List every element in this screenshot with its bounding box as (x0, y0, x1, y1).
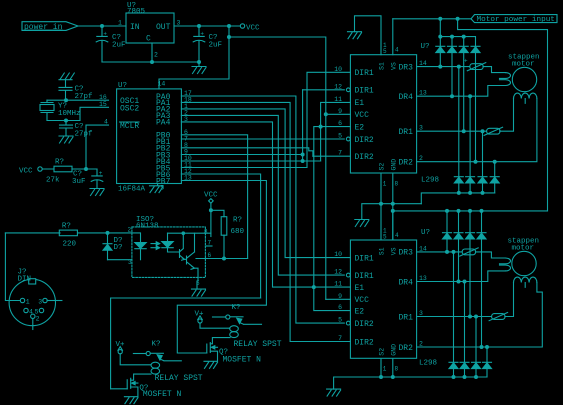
svg-text:L298: L298 (421, 177, 439, 185)
diode D6 (471, 46, 480, 161)
svg-text:MOSFET N: MOSFET N (223, 356, 262, 365)
VCC terminal left (19, 167, 42, 176)
wire U1 out to VCC (174, 25, 240, 27)
svg-text:6: 6 (338, 304, 342, 311)
node out junctions (197, 24, 201, 28)
svg-text:1: 1 (383, 181, 387, 188)
wire PA2 to U3 pin10 (181, 109, 350, 258)
diode D1 (103, 233, 123, 260)
svg-text:1: 1 (118, 20, 122, 27)
diode D12 (454, 211, 463, 282)
diode D13 (466, 211, 475, 317)
svg-text:U?: U? (118, 82, 127, 90)
svg-text:+: + (200, 31, 204, 38)
bottom diode D18 (483, 347, 492, 377)
ground bottom right (327, 389, 341, 396)
svg-text:7: 7 (338, 150, 342, 157)
svg-text:1: 1 (26, 299, 30, 306)
svg-text:2uF: 2uF (209, 42, 223, 50)
wire OSC1 (47, 99, 109, 101)
bottom diode D9 (478, 131, 487, 193)
svg-text:DIR1: DIR1 (355, 87, 374, 96)
node junction power-in (100, 24, 104, 28)
wire U1 pin2 down (151, 43, 153, 62)
ground mid (355, 220, 369, 227)
svg-text:DR3: DR3 (399, 63, 414, 72)
optocoupler ISO1 6N138 dashed box (132, 227, 206, 278)
ground mosfet A (124, 397, 137, 404)
svg-text:11: 11 (334, 281, 342, 288)
U3 right pin names (399, 249, 414, 353)
wire PB1 to U2 pin5 (181, 138, 344, 140)
ground below C5 (90, 189, 104, 196)
U3 bottom rail (334, 359, 487, 389)
U2 inversion circles pins 12,5 (346, 88, 350, 92)
opto darlington Q1 (180, 233, 185, 260)
svg-text:10MHz: 10MHz (58, 110, 81, 118)
wire MCLR (86, 125, 109, 169)
diode rail top (440, 19, 475, 47)
U3 right pin numbers (419, 245, 427, 347)
svg-text:S1: S1 (379, 247, 386, 255)
svg-text:V+: V+ (116, 341, 126, 349)
svg-text:2: 2 (154, 52, 158, 59)
svg-text:DIN: DIN (18, 276, 32, 284)
svg-text:3: 3 (38, 299, 42, 306)
svg-text:U?: U? (421, 229, 430, 237)
resistor R1 220 (5, 222, 131, 248)
svg-text:R?: R? (55, 159, 64, 167)
MOSFET Q1 N (111, 378, 182, 399)
resistor R2 27k (42, 159, 97, 185)
svg-text:5: 5 (160, 185, 164, 192)
svg-text:2: 2 (36, 316, 40, 323)
MOSFET Q2 N (207, 343, 261, 365)
wire U3 pin9 VCC (326, 298, 351, 300)
wire DR1' out (417, 316, 492, 318)
U3 bottom pin texts (379, 344, 399, 373)
resistor R4 680 (211, 210, 245, 258)
svg-text:DR4: DR4 (399, 93, 414, 102)
svg-text:L298: L298 (419, 360, 437, 368)
diode D5 (459, 46, 468, 131)
svg-text:R?: R? (233, 217, 242, 225)
U2 right pin names (399, 63, 414, 167)
U2 right pin numbers (419, 60, 427, 162)
svg-text:E2: E2 (355, 123, 365, 132)
wire coil bottom to DR4 (417, 86, 506, 97)
motor2 bottom coil (514, 277, 537, 287)
wire U2 pin9 VCC (326, 113, 351, 115)
svg-text:IN: IN (130, 23, 140, 32)
svg-text:K?: K? (232, 304, 241, 312)
fuse F1 (464, 58, 486, 71)
diode D14 (477, 211, 486, 347)
VCC terminal (240, 24, 260, 33)
U3 left pin names (355, 254, 374, 347)
Motor power input flag (471, 15, 557, 25)
svg-text:OUT: OUT (156, 23, 171, 32)
svg-text:4: 4 (104, 119, 108, 126)
PIC pin5 ground (150, 184, 164, 193)
U2 left pin numbers (334, 66, 342, 157)
svg-text:motor: motor (512, 245, 535, 253)
svg-text:+: + (464, 58, 468, 65)
wire coil A to drain (131, 374, 151, 380)
svg-text:5: 5 (338, 317, 342, 324)
wire PB4 to U2 pin12 (181, 90, 344, 161)
wire DR3 out (417, 66, 469, 68)
svg-text:VS: VS (391, 62, 398, 70)
svg-text:16: 16 (99, 94, 107, 101)
svg-text:DIR1: DIR1 (355, 254, 374, 263)
motor driver U2 L298 #1 (350, 43, 439, 185)
PIC microcontroller U2 16F84A (99, 82, 181, 194)
relay circuit B : V+ supply (195, 311, 230, 329)
wire PA0 to U3 pin5 (181, 96, 344, 323)
U2 bottom pin texts (379, 159, 399, 188)
svg-text:DR2: DR2 (399, 159, 414, 168)
relay circuit B : coil K2 (230, 326, 282, 349)
svg-text:12: 12 (334, 83, 342, 90)
wire long gate A net (111, 298, 261, 389)
svg-text:4: 4 (29, 309, 33, 316)
crystal Y1 10MHz (40, 100, 81, 120)
wire U2 pin15 to ground (355, 16, 382, 55)
svg-text:7805: 7805 (127, 8, 146, 16)
wire PB0 to opto output (181, 135, 247, 259)
svg-text:OSC2: OSC2 (120, 104, 139, 113)
wire U2 pin7 (313, 155, 351, 157)
svg-text:15: 15 (99, 101, 107, 108)
ground below C4 (59, 136, 73, 143)
wire coil B to drain (210, 338, 230, 344)
svg-text:PA4: PA4 (156, 119, 171, 128)
stepper motor 2 circle (508, 238, 540, 276)
U2 top pin texts (379, 42, 400, 70)
capacitor C2 2uF (193, 26, 222, 62)
svg-text:+: + (103, 31, 107, 38)
wire PA1 to U3 pin7 (181, 102, 350, 341)
svg-text:DR2: DR2 (399, 344, 414, 353)
bottom diode D8 (466, 96, 475, 193)
svg-text:220: 220 (63, 241, 77, 249)
svg-text:+: + (99, 170, 103, 177)
svg-text:MCLR: MCLR (120, 122, 139, 131)
PIC pin numbers right (184, 90, 192, 182)
opto pin7 stub (205, 245, 212, 247)
svg-text:8: 8 (395, 366, 399, 373)
svg-text:DR3: DR3 (399, 249, 414, 258)
bottom diode D16 (460, 282, 469, 378)
power in flag label (22, 22, 78, 32)
svg-text:4: 4 (395, 47, 399, 54)
svg-text:16F84A: 16F84A (118, 186, 146, 194)
diode D3 (436, 46, 445, 66)
wire PB7 to gate B (177, 181, 266, 354)
wire U2 bottom pins to ground (362, 173, 422, 240)
capacitor C3 27pf (59, 86, 93, 101)
wire power in to U1 (78, 25, 126, 27)
wire DR3' out (417, 251, 462, 253)
diode D4 (448, 46, 457, 96)
svg-text:27pf: 27pf (75, 93, 94, 101)
svg-text:RELAY SPST: RELAY SPST (234, 340, 282, 349)
capacitor C5 3uF (72, 169, 103, 188)
svg-text:5: 5 (383, 48, 387, 55)
svg-text:U?: U? (421, 43, 430, 51)
wire V+ branch right side (458, 19, 548, 211)
motor1 bottom coil (514, 93, 537, 103)
svg-text:VCC: VCC (355, 111, 370, 120)
opto emitter to pin5 ground (192, 281, 206, 296)
bottom diode D17 (472, 317, 481, 378)
motor1 left coil (500, 73, 511, 86)
svg-text:7: 7 (338, 335, 342, 342)
svg-text:5: 5 (383, 233, 387, 240)
wire U2 pin4 VS (392, 19, 394, 55)
wire bottom rail (102, 61, 199, 63)
wire DR1 out (417, 130, 487, 132)
relay circuit A : V+ supply (116, 341, 152, 365)
wire coil right to DR2 (417, 99, 537, 162)
diode D11 (443, 211, 452, 252)
fuse F2 (484, 127, 503, 135)
svg-text:1: 1 (383, 366, 387, 373)
wire D1 to opto pin3 (108, 259, 132, 261)
regulator U1 7805 (118, 2, 181, 59)
svg-text:DIR2: DIR2 (355, 320, 374, 329)
svg-text:27pf: 27pf (75, 131, 94, 139)
opto LED (132, 233, 146, 260)
svg-text:9: 9 (338, 108, 342, 115)
svg-text:11: 11 (334, 96, 342, 103)
U3 inversion circles pins 12,5 (346, 273, 350, 277)
svg-text:8: 8 (395, 181, 399, 188)
svg-text:8: 8 (204, 229, 208, 236)
motor rail 2 (393, 211, 548, 240)
wire VCC feed down (159, 26, 326, 299)
ground top (348, 32, 362, 39)
svg-text:DIR2: DIR2 (355, 136, 374, 145)
svg-text:K?: K? (152, 341, 161, 349)
svg-text:5: 5 (338, 133, 342, 140)
svg-text:DIR2: DIR2 (355, 338, 374, 347)
svg-text:14: 14 (158, 81, 166, 88)
svg-text:D?: D? (114, 244, 123, 252)
ground mosfet B (204, 361, 218, 368)
svg-text:DR1: DR1 (399, 128, 414, 137)
wire PB6 down to V net (181, 174, 260, 298)
motor2 left coil (500, 258, 511, 271)
stepper motor 1 circle (508, 54, 540, 92)
bottom diode D7 (454, 67, 463, 193)
svg-text:VCC: VCC (355, 296, 370, 305)
wire PB3 to U2 pin7 (181, 90, 302, 161)
svg-text:E1: E1 (355, 284, 365, 293)
svg-text:S1: S1 (379, 62, 386, 70)
wire coil2 right to DR2' (417, 283, 543, 348)
motor driver U3 L298 #2 (350, 229, 437, 368)
bottom diode D10 (490, 162, 499, 193)
svg-text:VS: VS (391, 247, 398, 255)
svg-text:MOSFET N: MOSFET N (143, 390, 182, 399)
svg-text:R?: R? (62, 222, 71, 230)
svg-text:DIR2: DIR2 (355, 153, 374, 162)
svg-text:6N138: 6N138 (136, 223, 159, 231)
wire PA4 to U3 pin11 (181, 122, 350, 287)
svg-text:DR1: DR1 (399, 313, 414, 322)
ground power (192, 62, 206, 74)
svg-text:S2: S2 (379, 348, 386, 356)
U3 left pin numbers (334, 251, 342, 342)
connector J1 DIN (9, 269, 62, 330)
opto light arrows (151, 242, 160, 250)
ground above C3 (59, 73, 74, 87)
opto pin labels (128, 227, 212, 288)
svg-text:E2: E2 (355, 307, 365, 316)
wire coil2 bottom to DR4' (417, 271, 506, 282)
svg-text:10: 10 (334, 251, 342, 258)
wire E2 chain (314, 127, 351, 311)
svg-text:680: 680 (231, 228, 245, 236)
relay circuit A : coil K1 (151, 362, 203, 383)
svg-text:motor: motor (512, 61, 535, 69)
U2 left pin names (355, 69, 374, 162)
opto darlington Q2 (185, 233, 199, 281)
fuse F3 (460, 248, 479, 256)
motor power rail (393, 18, 471, 20)
svg-text:C: C (146, 35, 151, 44)
svg-text:E1: E1 (355, 99, 365, 108)
relay circuit B : switch K2 SPST (213, 304, 262, 324)
svg-text:4: 4 (395, 232, 399, 239)
wire DR3' to coil (476, 252, 506, 258)
svg-text:GND: GND (391, 159, 398, 171)
capacitor C1 2uF (96, 26, 125, 62)
wire PB5 to U2 pin10 (181, 72, 350, 167)
svg-text:2uF: 2uF (112, 42, 126, 50)
svg-text:DR4: DR4 (399, 278, 414, 287)
wire DR3 to coil (483, 67, 506, 73)
svg-text:DIR1: DIR1 (355, 69, 374, 78)
bottom diode rail (421, 193, 494, 204)
opto photodiode (162, 233, 180, 252)
svg-text:RELAY SPST: RELAY SPST (155, 374, 203, 383)
svg-text:27k: 27k (46, 177, 60, 185)
svg-text:10: 10 (334, 66, 342, 73)
svg-text:3uF: 3uF (72, 178, 86, 186)
svg-text:DIR1: DIR1 (355, 272, 374, 281)
svg-text:VCC: VCC (246, 24, 260, 32)
capacitor C4 27pf (60, 121, 94, 139)
svg-text:VCC: VCC (19, 167, 33, 175)
svg-text:GND: GND (391, 344, 398, 356)
fuse F4 (489, 313, 508, 321)
svg-text:S2: S2 (379, 163, 386, 171)
wire OSC2 (47, 107, 109, 120)
U3 top pin texts (379, 227, 400, 255)
relay circuit A : switch K1 SPST (133, 341, 181, 361)
wire PA3 to U3 pin12 (181, 115, 344, 275)
VCC supply top (204, 192, 218, 237)
svg-text:12: 12 (334, 269, 342, 276)
bottom diode D15 (449, 252, 458, 377)
wire coil2 left to DR1' (505, 283, 514, 317)
opto output pin6 wire (196, 258, 248, 260)
svg-text:6: 6 (338, 120, 342, 127)
svg-text:9: 9 (338, 293, 342, 300)
wire coil left to DR1 (500, 99, 514, 132)
PIC pin names PA/PB (156, 93, 171, 187)
opto collector rail to pin8 (168, 232, 211, 234)
wire PB2 to E1 (181, 148, 313, 156)
wire left edge down to J1 (5, 233, 20, 301)
